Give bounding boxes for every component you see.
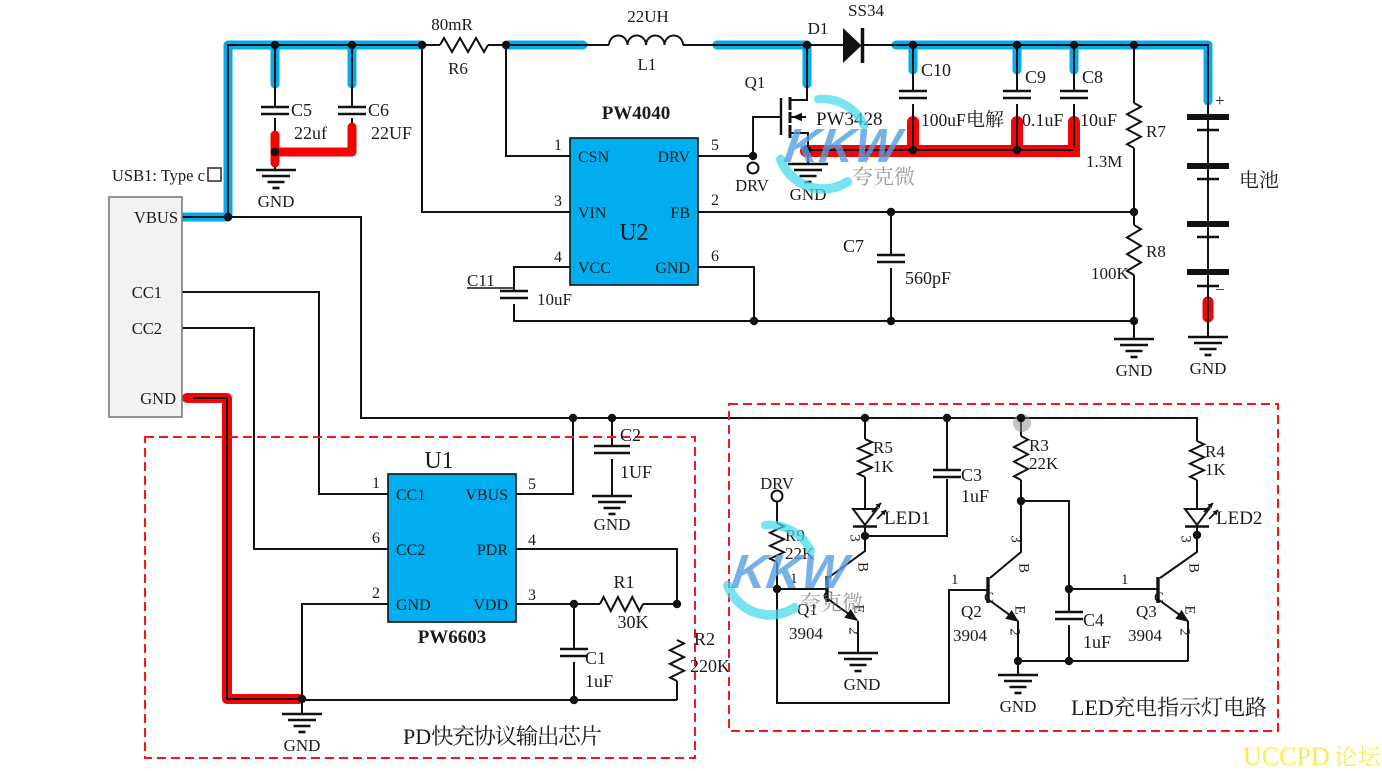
wire R7 bottom to FB node: [1133, 148, 1135, 212]
svg-text:B: B: [855, 562, 871, 572]
wire base node down and across to Q2 base: [777, 589, 987, 703]
wire ground rail under Q1 (black core of red): [807, 149, 1073, 151]
wire C2 branch: [611, 418, 613, 446]
svg-text:4: 4: [554, 249, 562, 266]
capacitor C1 1uF: [560, 648, 588, 651]
svg-text:3904: 3904: [1128, 626, 1163, 645]
capacitor C4 1uF: [1055, 611, 1083, 614]
capacitor C8 10uF: [1060, 90, 1088, 93]
svg-text:SS34: SS34: [848, 1, 884, 20]
svg-text:LED: LED: [1071, 695, 1114, 720]
transistor Q1 drain wire: [790, 45, 807, 100]
svg-text:1UF: 1UF: [620, 462, 652, 482]
inductor L1 22UH: [609, 36, 628, 46]
svg-text:R1: R1: [613, 572, 634, 592]
svg-text:GND: GND: [1116, 361, 1153, 380]
capacitor C5 22uf: [261, 106, 289, 109]
ground symbol under Q2 bjt: [998, 674, 1038, 676]
svg-text:2: 2: [372, 585, 380, 602]
svg-text:22UF: 22UF: [371, 123, 412, 143]
wire C5 branch: [274, 45, 276, 107]
transistor Q1 gate wire: [753, 117, 781, 156]
ground symbol under battery: [1188, 336, 1228, 338]
transistor Q3 3904: [1156, 577, 1159, 603]
wire U2 pin2 FB line to R7-R8 divider: [698, 211, 1134, 213]
node C5 ground: [271, 148, 279, 156]
wire battery cells link: [1207, 119, 1209, 166]
svg-text:C: C: [1154, 590, 1164, 606]
svg-text:2: 2: [846, 627, 862, 635]
svg-text:PW4040: PW4040: [602, 103, 671, 124]
svg-text:R4: R4: [1205, 442, 1225, 461]
svg-text:VDD: VDD: [473, 597, 508, 614]
wire blue highlight after L1 with stub to Q1 drain: [717, 45, 807, 84]
svg-text:C8: C8: [1082, 67, 1103, 87]
resistor R2 220K: [670, 640, 684, 681]
svg-text:CC2: CC2: [396, 542, 425, 559]
svg-text:GND: GND: [844, 675, 881, 694]
node U1 ground: [298, 695, 306, 703]
dashed box PD protocol chip: [145, 437, 695, 758]
svg-text:C7: C7: [843, 236, 864, 256]
svg-text:GND: GND: [284, 736, 321, 755]
svg-text:KKW: KKW: [728, 545, 854, 599]
wire C4 branch: [1068, 589, 1070, 612]
capacitor C9 0.1uF: [1003, 90, 1031, 93]
svg-text:1uF: 1uF: [585, 671, 613, 691]
ground symbol under U1: [282, 713, 322, 715]
svg-text:1K: 1K: [1205, 460, 1227, 479]
svg-text:VBUS: VBUS: [134, 208, 178, 227]
svg-text:4: 4: [528, 532, 536, 549]
capacitor C11 10uF: [500, 290, 528, 293]
svg-text:GND: GND: [1000, 697, 1037, 716]
svg-text:22UH: 22UH: [627, 7, 669, 26]
ground symbol under Q1: [788, 163, 828, 165]
wire Q1(bjt) base: [777, 588, 826, 590]
svg-text:UCCPD: UCCPD: [1243, 742, 1330, 771]
wire emitter rail Q2 to Q3: [1018, 660, 1188, 662]
svg-text:C2: C2: [620, 425, 641, 445]
svg-text:CC1: CC1: [396, 487, 425, 504]
svg-text:1uF: 1uF: [1083, 632, 1111, 652]
wire C8 branch: [1073, 45, 1075, 91]
node C9 on red rail: [1013, 146, 1021, 154]
svg-text:5: 5: [528, 476, 536, 493]
wire R3 bottom to Q2 collector node: [1020, 480, 1022, 501]
svg-text:U1: U1: [424, 448, 453, 474]
node U2 DRV: [749, 152, 757, 160]
svg-text:USB1: Type c: USB1: Type c: [112, 166, 205, 185]
wire blue highlight output rail to battery: [896, 45, 1208, 101]
svg-text:VIN: VIN: [578, 205, 607, 222]
svg-text:100uF: 100uF: [921, 110, 966, 130]
svg-text:6: 6: [711, 248, 719, 265]
svg-text:DRV: DRV: [735, 176, 769, 195]
diode D1 SS34: [843, 28, 862, 63]
nodes mid rail: [569, 414, 577, 422]
wire U2 pin4 VCC to C11: [514, 267, 570, 291]
op-amp U2 PW4040 regulator chip: [570, 138, 698, 285]
transistor Q1 PW3428 mosfet: [780, 98, 782, 135]
wire U1 pin4 PDR to R2 top: [516, 549, 677, 604]
svg-text:DRV: DRV: [658, 149, 691, 166]
wire R8 bottom to ground: [1133, 275, 1135, 339]
svg-text:3: 3: [1008, 535, 1024, 543]
node C10 on red rail: [909, 146, 917, 154]
wire C3 top: [946, 418, 948, 470]
svg-text:DRV: DRV: [760, 474, 794, 493]
svg-text:U2: U2: [619, 220, 648, 246]
wire Q2 collector: [990, 501, 1021, 578]
resistor R1 30K: [600, 597, 643, 611]
resistor R4 1K: [1190, 441, 1204, 480]
svg-text:C5: C5: [291, 100, 312, 120]
battery cells: [1187, 114, 1229, 120]
svg-text:3: 3: [528, 587, 536, 604]
LED LED1: [853, 509, 877, 525]
svg-text:R6: R6: [448, 59, 468, 78]
svg-text:R7: R7: [1146, 122, 1166, 141]
svg-text:R3: R3: [1029, 436, 1049, 455]
svg-text:22K: 22K: [1029, 454, 1059, 473]
watermark KKW bottom: [728, 525, 855, 615]
svg-text:R5: R5: [873, 438, 893, 457]
nodes LED box: [861, 414, 869, 422]
svg-text:220K: 220K: [690, 656, 730, 676]
svg-text:1.3M: 1.3M: [1086, 152, 1122, 171]
dashed box LED indicator: [729, 404, 1278, 731]
wire R4 to LED2: [1196, 480, 1198, 509]
wire R2 bottom: [676, 681, 678, 700]
wire VBUS blue highlight (USB to input rail): [182, 45, 422, 217]
wire blue highlight stubs C5 C6: [275, 45, 352, 84]
wire R9 to base node: [776, 562, 778, 589]
wire U1 pin2 GND down to ground node: [302, 604, 388, 699]
wire bottom ground rail of PD box: [302, 699, 677, 701]
transistor Q1 source wire to ground: [790, 133, 808, 164]
wire rail R6 to L1: [488, 44, 609, 46]
svg-text:C: C: [984, 590, 994, 606]
capacitor C10 100uF electrolytic: [899, 90, 927, 93]
wire LED2 bottom node: [1196, 527, 1198, 535]
capacitor C2 1UF: [594, 445, 630, 448]
resistor R7 1.3M: [1127, 103, 1141, 148]
svg-text:560pF: 560pF: [905, 268, 951, 288]
svg-text:Q2: Q2: [961, 602, 982, 621]
wire DRV to R9: [776, 501, 778, 523]
nodes FB line and bottom rail: [887, 208, 895, 216]
nodes top rail: [271, 41, 279, 49]
svg-text:C11: C11: [467, 271, 495, 290]
svg-text:−: −: [1215, 280, 1225, 299]
wire U2 pin6 GND down: [698, 267, 754, 321]
wire red highlight C5-C6 ground: [275, 127, 352, 163]
svg-text:CC1: CC1: [132, 283, 162, 302]
USB connector USB1: [109, 197, 182, 417]
resistor R9 22K: [770, 523, 784, 562]
wire rail L1 to D1: [683, 44, 843, 46]
svg-text:+: +: [1215, 91, 1225, 110]
svg-text:GND: GND: [140, 389, 176, 408]
svg-text:3: 3: [1178, 535, 1194, 543]
wire Q3 emitter down: [1187, 621, 1189, 661]
svg-text:C1: C1: [585, 648, 606, 668]
svg-text:1uF: 1uF: [961, 486, 989, 506]
LED LED2: [1185, 509, 1209, 525]
resistor R5 1K: [858, 439, 872, 477]
svg-text:0.1uF: 0.1uF: [1022, 110, 1064, 130]
ground symbol under C5: [256, 169, 296, 171]
svg-text:PDR: PDR: [477, 542, 508, 559]
resistor R3 22K: [1014, 436, 1028, 480]
wire U1 ground node to symbol: [301, 699, 303, 714]
wire LED1 to node and to C3 bottom: [865, 479, 947, 536]
svg-text:GND: GND: [258, 192, 295, 211]
transistor Q1 3904: [825, 576, 828, 602]
svg-text:3904: 3904: [789, 624, 824, 643]
svg-text:B: B: [1186, 563, 1202, 573]
wire LED1 node to Q1 collector: [828, 536, 865, 578]
wire R8 top: [1133, 212, 1135, 225]
wire C9 branch: [1016, 45, 1018, 91]
svg-text:3904: 3904: [953, 626, 988, 645]
wire R3 top: [1020, 418, 1022, 436]
wire USB GND black core: [182, 398, 302, 699]
ground symbol under Q1 bjt: [838, 652, 878, 654]
svg-text:C10: C10: [921, 60, 951, 80]
svg-text:100K: 100K: [1091, 264, 1130, 283]
svg-text:PW6603: PW6603: [418, 627, 487, 648]
wire U1 pin3 VDD to R1: [516, 603, 600, 605]
svg-text:3: 3: [847, 534, 863, 542]
svg-text:Q1: Q1: [745, 73, 766, 92]
node Q1 source on red rail: [803, 146, 811, 154]
node VBUS: [224, 213, 232, 221]
svg-text:R2: R2: [694, 629, 715, 649]
svg-text:1K: 1K: [873, 457, 895, 476]
wire blue highlight after R6: [507, 41, 583, 50]
svg-text:GND: GND: [594, 515, 631, 534]
wire R5 top: [864, 418, 866, 439]
svg-text:6: 6: [372, 530, 380, 547]
svg-text:1: 1: [554, 137, 562, 154]
svg-text:1: 1: [951, 572, 959, 588]
ground symbol under C2: [592, 495, 632, 497]
capacitor C7 560pF: [877, 254, 905, 257]
transistor Q2 3904: [986, 577, 989, 603]
wire U1 pin5 VBUS up to rail: [516, 418, 573, 494]
svg-text:C3: C3: [961, 465, 982, 485]
wire red highlight power ground rail Q1-C10-C9-C8: [806, 122, 1074, 151]
svg-text:10uF: 10uF: [537, 290, 572, 309]
wire red highlight battery negative stub: [1203, 302, 1214, 317]
svg-text:1: 1: [1121, 572, 1129, 588]
svg-text:C6: C6: [368, 100, 389, 120]
nodes R1 C1: [570, 600, 578, 608]
svg-text:B: B: [1016, 563, 1032, 573]
svg-text:3: 3: [554, 193, 562, 210]
svg-text:CSN: CSN: [578, 149, 610, 166]
capacitor C6 22UF: [338, 106, 366, 109]
capacitor C3 1uF: [933, 469, 961, 472]
wire R1 right to R2 node: [643, 603, 677, 605]
wire Q3 collector to LED2: [1160, 535, 1197, 578]
svg-text:1: 1: [372, 475, 380, 492]
resistor R6 80mR: [440, 38, 488, 52]
svg-text:GND: GND: [1190, 359, 1227, 378]
wire C10 branch: [912, 45, 914, 91]
wire Q1 emitter to ground: [857, 621, 859, 653]
wire C6 branch: [351, 45, 353, 107]
wire U2 pin1 CSN from rail: [506, 45, 570, 156]
svg-text:22uf: 22uf: [294, 123, 327, 143]
svg-text:5: 5: [711, 137, 719, 154]
wire rail D1 to battery plus: [864, 45, 1208, 116]
wire VBUS node to mid rail down to LED box and R4: [228, 217, 1197, 441]
svg-text:10uF: 10uF: [1080, 110, 1117, 130]
watermark gray disc: [1013, 414, 1031, 432]
svg-text:VCC: VCC: [578, 260, 611, 277]
svg-text:FB: FB: [670, 205, 690, 222]
svg-text:30K: 30K: [618, 612, 649, 632]
terminal DRV circle: [748, 163, 759, 174]
svg-text:GND: GND: [655, 260, 690, 277]
wire R3 node to Q3 base via C4 node: [1021, 501, 1157, 589]
svg-text:2: 2: [711, 192, 719, 209]
svg-text:GND: GND: [396, 597, 431, 614]
wire Q2 emitter down: [1017, 621, 1019, 675]
svg-text:R8: R8: [1146, 242, 1166, 261]
wire U2 pin5 DRV to gate node: [698, 155, 753, 157]
wire C1 branch: [573, 604, 575, 649]
wire top rail from USB VBUS corner to R6: [182, 45, 440, 217]
wire C7 branch: [890, 212, 892, 255]
svg-text:PD: PD: [403, 724, 431, 749]
svg-text:KKW: KKW: [781, 119, 907, 173]
svg-text:80mR: 80mR: [431, 15, 473, 34]
svg-text:E: E: [1012, 605, 1028, 614]
wire U2 pin3 VIN from rail: [422, 45, 570, 212]
wire R7 top: [1133, 45, 1135, 103]
wire C11 bottom rail to R8 GND: [514, 304, 1134, 321]
svg-text:VBUS: VBUS: [465, 487, 508, 504]
op-amp U1 PW6603 chip: [388, 474, 516, 622]
wire USB CC2 to U1 pin6: [182, 328, 388, 549]
svg-text:2: 2: [1007, 628, 1023, 636]
svg-text:CC2: CC2: [132, 319, 162, 338]
terminal DRV circle LED box: [772, 491, 783, 502]
red dot USB GND pin: [183, 393, 193, 403]
wire red highlight USB GND to board ground: [187, 398, 299, 699]
svg-text:2: 2: [1177, 628, 1193, 636]
svg-text:LED2: LED2: [1216, 508, 1262, 529]
svg-text:D1: D1: [808, 19, 829, 38]
ground symbol under R8: [1114, 338, 1154, 340]
wire USB CC1 to U1 pin1: [182, 292, 388, 494]
svg-text:E: E: [1182, 605, 1198, 614]
svg-text:C9: C9: [1025, 67, 1046, 87]
svg-text:C4: C4: [1083, 610, 1104, 630]
resistor R8 100K: [1127, 225, 1141, 275]
wire R5 to LED1: [864, 477, 866, 509]
svg-text:L1: L1: [638, 55, 657, 74]
watermark KKW top: [781, 99, 908, 189]
svg-text:LED1: LED1: [884, 508, 930, 529]
